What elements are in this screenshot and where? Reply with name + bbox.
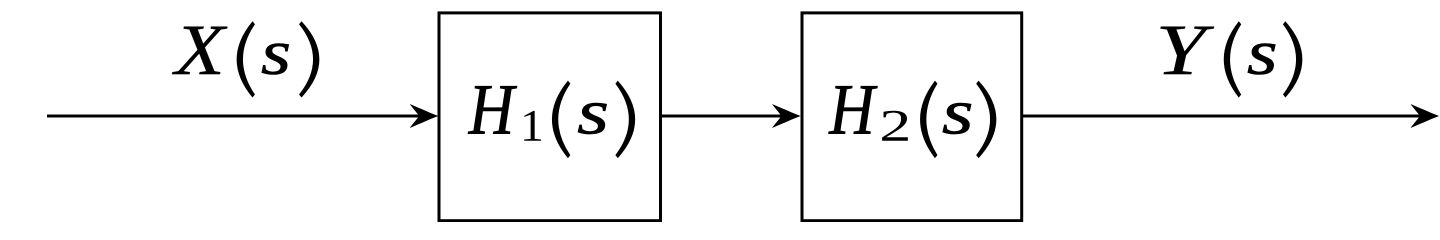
node label Y(s): [1160, 22, 1302, 97]
node label X(s): [172, 22, 319, 97]
block H1: [439, 13, 661, 221]
input wire: [47, 115, 434, 118]
input arrowhead: [410, 104, 439, 128]
label H2(s): [829, 81, 996, 157]
block H2: [802, 13, 1022, 221]
output wire: [1022, 115, 1432, 118]
arrowhead into H2: [772, 104, 801, 128]
wire H1 to H2: [660, 115, 797, 118]
label H1(s): [468, 81, 635, 157]
output arrowhead: [1411, 104, 1440, 128]
